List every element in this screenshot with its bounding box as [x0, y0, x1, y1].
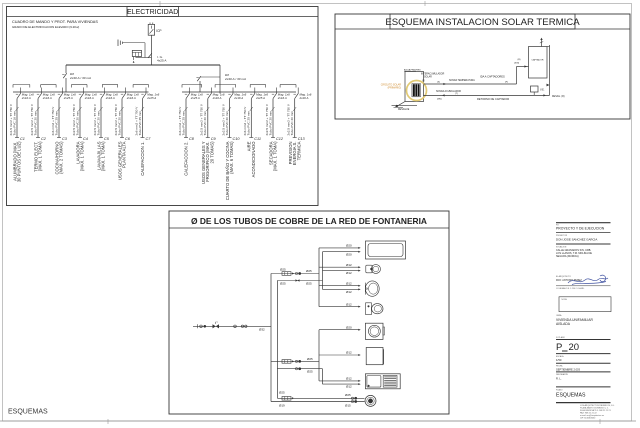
load label C1 [12, 141, 21, 182]
cable spec C8 [178, 106, 188, 136]
svg-text:NOTA: NOTA [562, 298, 568, 301]
expansion vessel VE [531, 86, 545, 95]
svg-text:Tubo PVC 25 mm: Tubo PVC 25 mm [181, 111, 185, 136]
svg-text:(P): (P) [505, 82, 508, 84]
breaker C11 Mag. 2x25 A [250, 88, 268, 101]
breaker C7 Mag. 2x25 A [141, 88, 159, 101]
svg-text:C4: C4 [83, 137, 88, 141]
svg-text:Ø25: Ø25 [306, 269, 312, 273]
svg-text:Ø25: Ø25 [307, 370, 313, 374]
svg-text:CALEFACCION 1.: CALEFACCION 1. [140, 142, 145, 176]
svg-text:Tubo PVC 20 mm: Tubo PVC 20 mm [75, 111, 79, 136]
breaker C3 Mag. 2x25 A [58, 88, 76, 101]
svg-text:Ø25: Ø25 [280, 268, 286, 272]
pipe to bathtub [319, 244, 361, 257]
svg-text:SEPTIEMBRE 2.003: SEPTIEMBRE 2.003 [556, 367, 580, 371]
svg-text:N. PLANO: N. PLANO [556, 336, 565, 339]
wire circuit C5 [99, 99, 103, 138]
svg-text:(NN): (NN) [437, 98, 442, 100]
svg-text:Ø12: Ø12 [346, 351, 352, 355]
breaker C12 Mag. 2x16 A [272, 88, 290, 101]
pipe to sink [319, 325, 361, 330]
wire circuit C11 [249, 99, 253, 138]
node C4 [83, 137, 88, 141]
svg-text:Ø12: Ø12 [346, 263, 352, 267]
svg-text:(PRIMARIO): (PRIMARIO) [388, 87, 402, 90]
bidet [366, 265, 381, 274]
svg-text:2x16 A: 2x16 A [233, 96, 243, 100]
solar collector (captador) [529, 47, 548, 79]
pipe to toilet [319, 302, 361, 307]
load label C4 [75, 141, 84, 171]
svg-text:DELINEANTE: DELINEANTE [556, 373, 569, 376]
node C12 [276, 137, 284, 141]
svg-text:AGUA FRIA RED: AGUA FRIA RED [404, 68, 421, 71]
breaker C1 Mag. 2x10 A [16, 88, 34, 101]
svg-text:2x16 A: 2x16 A [42, 96, 52, 100]
cable spec C7 [134, 106, 144, 136]
svg-text:DON JOSE SANCHEZ GARCIA: DON JOSE SANCHEZ GARCIA [556, 237, 597, 241]
svg-text:(MAX. 1 TOMA): (MAX. 1 TOMA) [273, 141, 278, 171]
solar highlight ring [407, 81, 427, 101]
svg-text:Ø12: Ø12 [346, 385, 352, 389]
cable spec C12 [265, 103, 275, 135]
svg-text:30 PUNTOS DE LUZ): 30 PUNTOS DE LUZ) [17, 141, 22, 182]
wire circuit C13 [293, 99, 297, 138]
svg-text:ICP: ICP [156, 29, 161, 33]
svg-text:1/50: 1/50 [556, 358, 562, 362]
svg-text:V.E.: V.E. [540, 89, 545, 92]
lower branch riser cold [318, 330, 320, 381]
svg-text:Ø20: Ø20 [346, 325, 352, 329]
node C1 [20, 137, 25, 141]
svg-text:(MAX. 1 TOMA): (MAX. 1 TOMA) [80, 141, 85, 171]
wire circuit C12 [271, 99, 275, 138]
sheet name label [8, 408, 48, 415]
svg-text:Ø12: Ø12 [346, 377, 352, 381]
main water supply pipe [193, 321, 271, 331]
solar tank (interacumulador) [404, 68, 424, 101]
svg-text:(R): (R) [518, 59, 521, 61]
node C6 [125, 137, 131, 141]
load label C7 [140, 142, 145, 176]
lower branch riser hot [322, 369, 324, 384]
svg-text:AISLADA: AISLADA [556, 322, 571, 326]
wire circuit C10 [228, 99, 232, 138]
svg-text:2x16 A: 2x16 A [212, 96, 222, 100]
svg-text:VIVIENDA UNIFAMILIAR: VIVIENDA UNIFAMILIAR [556, 318, 593, 322]
svg-text:ESQUEMAS: ESQUEMAS [8, 408, 48, 415]
upper branch riser cold [318, 248, 320, 307]
bathtub [366, 241, 406, 259]
breaker C10 Mag. 2x16 A [228, 88, 246, 101]
svg-text:CIF: B-30303030: CIF: B-30303030 [580, 417, 596, 419]
main bus wire [66, 64, 220, 66]
left group phase rail [13, 85, 149, 88]
node C11 [254, 137, 261, 141]
differential D1 (left) 2x40A 30mA [62, 65, 91, 92]
svg-text:CALEFACCION 2.: CALEFACCION 2. [183, 142, 188, 176]
svg-text:ESQUEMAS: ESQUEMAS [556, 392, 586, 398]
outdoor tap [365, 395, 376, 406]
breaker C2 Mag. 2x16 A [37, 88, 55, 101]
svg-text:Tubo PVC 20 mm: Tubo PVC 20 mm [268, 111, 272, 136]
svg-text:Ø25: Ø25 [307, 357, 313, 361]
dishwasher [366, 348, 383, 365]
architect signature section [556, 275, 611, 290]
load label C12 [268, 141, 277, 171]
svg-text:2x25 A: 2x25 A [146, 96, 156, 100]
svg-text:2x16 A: 2x16 A [105, 96, 115, 100]
svg-text:ACONDICIONADO: ACONDICIONADO [251, 141, 256, 178]
svg-text:Ø32: Ø32 [259, 327, 265, 331]
ground electrode [118, 40, 123, 47]
svg-text:2x40 A / 30 mA: 2x40 A / 30 mA [69, 76, 91, 80]
svg-text:PROYECTO Y DE EJECUCION: PROYECTO Y DE EJECUCION [556, 226, 605, 230]
pipe feed mid hot [277, 368, 322, 374]
svg-text:2x25 A: 2x25 A [255, 96, 265, 100]
svg-text:IDA A CAPTADORES: IDA A CAPTADORES [480, 74, 505, 78]
load label C3 [54, 141, 63, 175]
pipe feed upper cold [271, 268, 319, 276]
cable spec C1 [9, 103, 19, 135]
node C7 [146, 137, 152, 141]
project name section [556, 314, 593, 326]
load label C13 [288, 141, 301, 165]
svg-text:2x40 A / 30 mA: 2x40 A / 30 mA [224, 77, 246, 81]
svg-text:2x10 A: 2x10 A [21, 96, 31, 100]
load label C5 [96, 141, 105, 171]
wire meter to IG [136, 57, 152, 59]
wire circuit C6 [120, 99, 124, 138]
label circuito solar [381, 83, 402, 89]
draughtsman section [556, 373, 611, 387]
svg-text:TERMICA: TERMICA [296, 141, 301, 160]
pipe to bidet [319, 263, 361, 275]
office address block [580, 404, 615, 420]
hot water riser [277, 281, 364, 399]
pipe to dishwasher [319, 351, 361, 356]
breaker C5 Mag. 2x16 A [100, 88, 118, 101]
wire circuit C9 [206, 99, 210, 138]
left group neutral rail [13, 91, 149, 93]
solar thermal scheme box [335, 14, 630, 119]
svg-text:Ø20: Ø20 [346, 244, 352, 248]
load label C11 [247, 141, 256, 178]
cold water riser [271, 274, 365, 402]
circuit breaker ICP [148, 23, 161, 36]
svg-text:C13: C13 [298, 137, 306, 141]
svg-text:C1: C1 [20, 137, 25, 141]
svg-text:R. L.: R. L. [556, 376, 562, 380]
wire ICP to bus [150, 35, 152, 65]
panel heading text [12, 20, 98, 29]
pipe feed mid cold [271, 357, 319, 363]
svg-text:Tubo PVC 25 mm: Tubo PVC 25 mm [138, 111, 142, 136]
date section [556, 364, 611, 372]
pipe ida a captadores [424, 59, 529, 85]
cable spec C6 [114, 103, 124, 135]
svg-text:2x16 A: 2x16 A [277, 96, 287, 100]
drain valve [547, 84, 550, 87]
pipe to washbasin [319, 281, 361, 294]
svg-text:(S): (S) [437, 82, 440, 84]
electrical panel box ELECTRICIDAD [7, 7, 319, 206]
svg-text:DESAGUE: DESAGUE [398, 108, 410, 111]
cable spec C5 [93, 103, 103, 135]
svg-text:4x25 A: 4x25 A [157, 59, 167, 63]
scale section [556, 355, 611, 364]
cable spec C3 [51, 106, 61, 136]
cable spec C2 [30, 103, 40, 135]
svg-text:Ø20: Ø20 [346, 252, 352, 256]
pipe to washing machine [319, 377, 361, 389]
svg-text:SOLAR: SOLAR [424, 76, 432, 79]
svg-text:EL ARQUITECTO: EL ARQUITECTO [556, 275, 572, 278]
svg-text:2x25 A: 2x25 A [63, 96, 73, 100]
svg-text:SONDA TEMPERATURA: SONDA TEMPERATURA [449, 79, 475, 82]
plan number section [556, 336, 611, 353]
wire circuit C1 [15, 99, 19, 138]
load label C6 [117, 141, 126, 180]
cable spec C10 [221, 103, 231, 135]
notes box [559, 297, 611, 312]
svg-text:Tubo PVC 20 mm: Tubo PVC 20 mm [225, 111, 229, 136]
svg-text:INTERACUMULADOR: INTERACUMULADOR [421, 73, 445, 76]
wire circuit C4 [78, 99, 82, 138]
washbasin [365, 281, 379, 296]
wire circuit C8 [184, 99, 188, 138]
sheet title section [556, 388, 611, 402]
svg-text:COLEGIADO N. 1.234 C.O.A.MU.: COLEGIADO N. 1.234 C.O.A.MU. [556, 287, 585, 290]
svg-text:Tubo PVC 16 mm: Tubo PVC 16 mm [12, 111, 16, 136]
energy meter (contador) [132, 50, 141, 62]
differential D2 (right) 2x40A 30mA [196, 65, 246, 94]
breaker C4 Mag. 2x16 A [79, 88, 97, 101]
svg-text:DESAG. (R): DESAG. (R) [552, 95, 565, 98]
svg-text:Ø12: Ø12 [346, 290, 352, 294]
svg-text:Ø12: Ø12 [346, 302, 352, 306]
breaker C8 Mag. 2x25 A [185, 88, 203, 101]
svg-text:2x16 A: 2x16 A [126, 96, 136, 100]
wire circuit C2 [36, 99, 40, 138]
svg-text:SEGURA (MURCIA): SEGURA (MURCIA) [556, 255, 579, 258]
breaker C9 Mag. 2x16 A [207, 88, 225, 101]
svg-text:Tubo PVC 25 mm: Tubo PVC 25 mm [54, 111, 58, 136]
pipe feed bottom meter [279, 391, 357, 408]
wire circuit C7 [141, 99, 145, 138]
heat exchanger coil [412, 84, 421, 97]
svg-text:ELECTRICIDAD: ELECTRICIDAD [127, 9, 178, 16]
kitchen sink [365, 323, 384, 339]
toilet [366, 303, 383, 315]
tank drain (desague) [392, 102, 418, 111]
svg-text:FECHA: FECHA [556, 364, 563, 367]
title block [556, 223, 611, 258]
breaker C6 Mag. 2x16 A [121, 88, 139, 101]
svg-text:Ø DE LOS TUBOS DE COBRE DE LA: Ø DE LOS TUBOS DE COBRE DE LA RED DE FON… [191, 216, 427, 226]
svg-text:Ø19: Ø19 [279, 404, 285, 408]
svg-text:RETORNO DE CAPTADOR: RETORNO DE CAPTADOR [477, 97, 509, 101]
cable spec C9 [200, 103, 210, 135]
load label C8 [183, 142, 188, 176]
svg-text:GRADO DE ELECTRIFICACION ELEVA: GRADO DE ELECTRIFICACION ELEVADO (9.2Kw) [12, 25, 79, 29]
svg-text:Ø12: Ø12 [346, 281, 352, 285]
cable spec C11 [243, 106, 253, 136]
plumbing scheme box [169, 211, 449, 414]
node C5 [104, 137, 110, 141]
svg-text:Tubo PVC 20 mm: Tubo PVC 20 mm [33, 111, 37, 136]
cable spec C13 [287, 103, 297, 135]
label interacumulador [421, 73, 445, 83]
svg-text:PLANTA ALTA: PLANTA ALTA [122, 141, 127, 168]
svg-text:(MAX. 6 TOMAS): (MAX. 6 TOMAS) [229, 141, 234, 174]
svg-text:Ø25: Ø25 [345, 393, 351, 397]
svg-text:C11: C11 [254, 137, 261, 141]
svg-text:CUADRO DE MANDO Y PROT. PARA V: CUADRO DE MANDO Y PROT. PARA VIVIENDAS [12, 20, 98, 24]
breaker C13 Mag. 2x16 A [294, 88, 312, 101]
right group phase rail [182, 85, 296, 88]
cable spec C4 [72, 103, 82, 135]
svg-text:PLANO: PLANO [556, 388, 563, 391]
svg-text:OBRA: OBRA [556, 314, 562, 317]
node C2 [41, 137, 47, 141]
svg-text:Tubo PVC 20 mm: Tubo PVC 20 mm [290, 111, 294, 136]
svg-text:C10: C10 [233, 137, 241, 141]
svg-text:(P): (P) [422, 80, 425, 82]
node C10 [233, 137, 241, 141]
svg-text:Ø15: Ø15 [345, 403, 351, 407]
svg-text:2x16 A: 2x16 A [84, 96, 94, 100]
svg-text:Ø12: Ø12 [346, 271, 352, 275]
svg-text:(S/N): (S/N) [514, 62, 519, 64]
main switch IG [148, 53, 167, 62]
svg-text:20 TOMAS): 20 TOMAS) [209, 141, 214, 164]
vent arrow [540, 38, 543, 47]
load label C10 [225, 141, 234, 200]
wire ground to meter [123, 43, 145, 58]
svg-text:Tubo PVC 20 mm: Tubo PVC 20 mm [203, 111, 207, 136]
svg-text:C12: C12 [276, 137, 284, 141]
svg-text:Ø25: Ø25 [280, 281, 286, 285]
right group neutral rail [182, 91, 296, 93]
svg-text:(MAX. 1 TOMA): (MAX. 1 TOMA) [38, 141, 43, 171]
svg-text:Tubo PVC 20 mm: Tubo PVC 20 mm [96, 111, 100, 136]
svg-text:(MAX. 1 TOMA): (MAX. 1 TOMA) [101, 141, 106, 171]
svg-text:Ø25: Ø25 [306, 282, 312, 286]
washing machine [365, 374, 400, 389]
wire circuit C3 [57, 99, 61, 138]
pipe feed upper hot [277, 279, 322, 285]
svg-text:20: 20 [569, 342, 580, 353]
node C9 [211, 137, 217, 141]
svg-text:Tubo PVC 20 mm: Tubo PVC 20 mm [117, 111, 121, 136]
node C3 [62, 137, 68, 141]
node C13 [298, 137, 306, 141]
svg-text:ESQUEMA INSTALACION SOLAR TERM: ESQUEMA INSTALACION SOLAR TERMICA [385, 17, 580, 28]
svg-text:CAPTADOR: CAPTADOR [532, 58, 544, 61]
svg-text:Ø25: Ø25 [279, 391, 285, 395]
node C8 [189, 137, 195, 141]
svg-text:Tubo PVC 25 mm: Tubo PVC 25 mm [247, 111, 251, 136]
svg-text:P: P [556, 342, 562, 353]
upper branch riser hot [322, 252, 324, 290]
pipe retorno de captador [424, 45, 565, 101]
load label C9 [201, 141, 214, 184]
svg-text:(MAX. 2 TOMAS): (MAX. 2 TOMAS) [59, 141, 64, 174]
load label C2 [33, 141, 42, 172]
svg-text:2x16 A: 2x16 A [299, 96, 309, 100]
svg-text:(T): (T) [455, 93, 458, 95]
svg-text:2x25 A: 2x25 A [190, 96, 200, 100]
